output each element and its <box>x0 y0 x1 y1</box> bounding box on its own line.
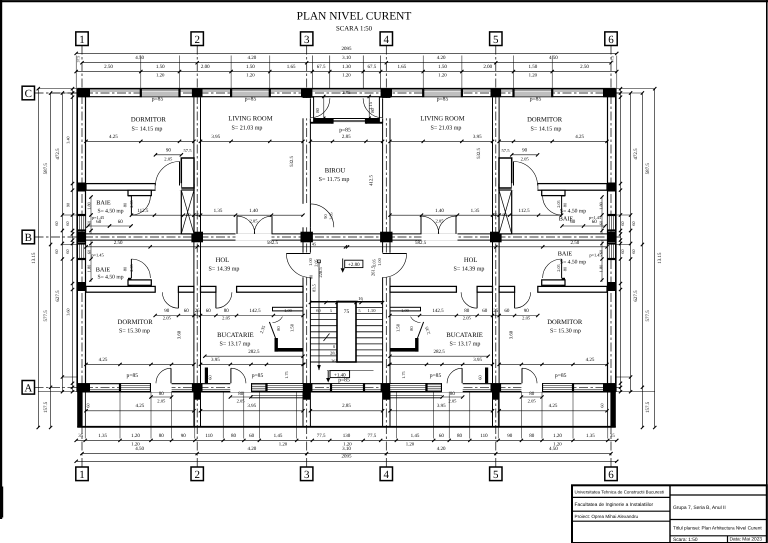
svg-text:265: 265 <box>331 358 338 363</box>
svg-text:3.95: 3.95 <box>211 134 220 140</box>
svg-text:1.50: 1.50 <box>396 323 401 332</box>
svg-text:80: 80 <box>122 202 127 207</box>
svg-text:60: 60 <box>208 375 213 380</box>
svg-text:1.75: 1.75 <box>401 371 406 378</box>
svg-text:2.05: 2.05 <box>129 264 134 271</box>
cut door living-left double in B wall <box>236 233 272 240</box>
window south bedroom-right 1.20 <box>542 384 573 391</box>
cut door bedroom-left in A1 wall <box>155 183 181 190</box>
svg-text:3.95: 3.95 <box>473 134 482 140</box>
svg-text:3.95: 3.95 <box>247 403 256 409</box>
svg-text:5: 5 <box>493 469 499 481</box>
pier grid5 x axisB <box>490 232 502 243</box>
svg-text:2.05: 2.05 <box>249 219 258 224</box>
south wall inner liner line <box>77 388 616 390</box>
svg-text:4.20: 4.20 <box>437 446 446 452</box>
svg-text:4.25: 4.25 <box>109 134 118 140</box>
bath-lower-left east wall <box>128 278 131 287</box>
extension lines top <box>75 56 77 89</box>
svg-text:S= 15.30 mp: S= 15.30 mp <box>119 328 150 334</box>
svg-text:6: 6 <box>608 469 614 481</box>
svg-text:60: 60 <box>439 433 445 439</box>
grid bubble 6 bottom <box>605 467 617 481</box>
svg-text:80: 80 <box>563 266 568 271</box>
svg-text:4.25: 4.25 <box>549 403 558 409</box>
svg-text:80: 80 <box>315 108 320 113</box>
svg-text:228.5: 228.5 <box>318 267 323 278</box>
svg-text:25: 25 <box>493 308 499 314</box>
terrace stub grid2 <box>193 392 195 427</box>
loggia recessed wall west part <box>310 119 332 124</box>
loggia parapet north <box>310 118 382 120</box>
pantry-right south wall <box>390 348 419 352</box>
svg-text:472.5: 472.5 <box>55 148 61 160</box>
svg-text:5: 5 <box>330 308 332 313</box>
svg-text:S= 14.15 mp: S= 14.15 mp <box>132 127 163 133</box>
cut door apt-right entry in grid4 wall <box>382 253 391 278</box>
svg-text:60: 60 <box>599 220 604 225</box>
svg-text:2095: 2095 <box>342 46 353 52</box>
kitchen-left return wall at grid2 <box>205 368 208 384</box>
dim col right 587.5/577.5/157.5 <box>641 93 643 428</box>
svg-text:2.85: 2.85 <box>342 403 351 409</box>
north exterior wall inner face <box>77 96 616 98</box>
svg-text:3.10: 3.10 <box>342 55 351 61</box>
svg-text:80: 80 <box>529 391 535 397</box>
svg-text:60: 60 <box>316 308 321 313</box>
svg-text:1.80: 1.80 <box>87 201 92 209</box>
svg-text:80: 80 <box>529 433 535 439</box>
svg-text:1.75: 1.75 <box>284 371 289 378</box>
terrace bottom edge full width <box>77 426 616 428</box>
terrace stub east wall <box>610 392 615 427</box>
cut door loggia in grid3 wall <box>302 98 311 118</box>
svg-text:3: 3 <box>304 469 310 481</box>
svg-text:1.50: 1.50 <box>529 64 538 70</box>
svg-text:4: 4 <box>384 469 390 481</box>
svg-text:1.45: 1.45 <box>411 433 420 439</box>
window west bath-upper 60 <box>78 215 85 231</box>
north wall pier at grid 2 <box>192 89 203 98</box>
bath-upper-right west wall <box>562 190 565 196</box>
dim row top detail <box>76 71 617 73</box>
window north living-left 1.50/1.20 <box>231 90 270 97</box>
page frame top edge <box>0 0 768 2</box>
dim row top overall 2095 <box>76 52 617 54</box>
svg-text:1: 1 <box>79 34 85 46</box>
loggia side wall right <box>379 97 382 122</box>
svg-text:3.40: 3.40 <box>66 136 71 143</box>
svg-text:p=85: p=85 <box>430 373 442 379</box>
svg-text:1.50: 1.50 <box>156 64 165 70</box>
svg-text:4.50: 4.50 <box>135 55 144 61</box>
svg-text:57.5: 57.5 <box>501 148 510 153</box>
pier grid3 x axisB <box>301 232 313 243</box>
svg-text:Data: Mai 2023: Data: Mai 2023 <box>730 537 763 543</box>
svg-text:90: 90 <box>524 308 530 314</box>
svg-text:577.5: 577.5 <box>43 310 49 322</box>
door kitchen-left 80 from hol <box>215 292 217 308</box>
svg-text:587.5: 587.5 <box>43 163 49 175</box>
svg-text:80: 80 <box>122 266 127 271</box>
svg-text:472.5: 472.5 <box>633 148 639 160</box>
dim line rooms top <box>86 140 194 142</box>
east exterior wall inner face <box>607 89 609 392</box>
SE corner pier <box>603 383 616 392</box>
bedroom-left wall under shaft <box>180 184 194 190</box>
terrace stub west wall <box>77 392 82 427</box>
svg-text:A: A <box>24 382 32 394</box>
svg-text:3.60: 3.60 <box>509 330 515 339</box>
svg-text:S= 13.17 mp: S= 13.17 mp <box>220 341 251 347</box>
svg-text:2.50: 2.50 <box>114 240 123 246</box>
north wall pier at grid 4 <box>381 89 392 98</box>
svg-text:p=85: p=85 <box>555 373 567 379</box>
pier grid2 x axisB <box>191 232 203 243</box>
window north bedroom-left 1.50/1.20 <box>141 90 180 97</box>
grid bubble 2 top <box>191 32 203 46</box>
svg-text:HOL: HOL <box>464 257 478 264</box>
wall axis B spine <box>86 233 607 235</box>
svg-text:60: 60 <box>118 219 124 225</box>
svg-text:2.05: 2.05 <box>329 212 334 219</box>
svg-text:1.65: 1.65 <box>287 64 296 70</box>
dim chain hol lower left (2.50 582.5) <box>86 246 348 248</box>
dim lobby 60/60 right <box>562 225 605 227</box>
dim chain hol upper (112.5 / 1.35 / 1.40) <box>131 214 303 216</box>
svg-text:1.00: 1.00 <box>284 308 292 313</box>
east wall pier at bedroom wall <box>607 183 616 192</box>
wall grid 2 interior <box>193 97 195 383</box>
window north bedroom-right 1.50/1.20 <box>514 90 553 97</box>
svg-text:60: 60 <box>65 221 70 225</box>
grid bubble 1 top <box>76 32 88 46</box>
svg-text:p=85: p=85 <box>245 96 257 102</box>
dim chain bedroom2/kitchen doors right <box>390 315 538 317</box>
svg-text:2.05: 2.05 <box>222 315 231 320</box>
stair bottom landing edge <box>310 361 382 363</box>
grid bubble 3 bottom <box>301 467 313 481</box>
svg-text:532.5: 532.5 <box>476 148 482 159</box>
west wall pier at bedroom wall <box>77 183 86 192</box>
kitchen-right return wall at grid5 <box>485 368 488 384</box>
window south kitchen-left small 60 <box>251 384 267 391</box>
dim col left 587.5/577.5/157.5 <box>50 93 52 428</box>
stair flight direction line <box>318 262 320 371</box>
door loggia from living-right 80 <box>382 98 384 118</box>
dim col left horizontal connectors <box>38 88 77 90</box>
svg-text:90: 90 <box>166 148 172 154</box>
svg-text:p=85: p=85 <box>339 128 351 134</box>
svg-text:60: 60 <box>599 249 604 254</box>
door loggia from living-left 80 <box>309 98 311 118</box>
grid axis 2 vertical centerline <box>196 46 198 468</box>
svg-text:1.35: 1.35 <box>471 208 480 214</box>
svg-text:2.85: 2.85 <box>342 90 351 96</box>
wall grid 5 interior <box>492 97 494 383</box>
svg-text:1.40: 1.40 <box>435 208 444 214</box>
cut door south kitchen-right <box>442 383 463 393</box>
svg-text:1.35: 1.35 <box>214 208 223 214</box>
door bath-lower-right 80 <box>561 259 563 278</box>
svg-text:4.50: 4.50 <box>549 55 558 61</box>
dim chain hol lower right <box>346 246 608 248</box>
door pantry-right diagonal 80 <box>418 322 424 338</box>
cut door living-right double in B wall <box>422 233 458 240</box>
svg-text:S= 14.39 mp: S= 14.39 mp <box>454 266 485 272</box>
svg-text:Proiect: Oprea Mihai Alexandr: Proiect: Oprea Mihai Alexandru <box>575 514 639 519</box>
svg-text:2: 2 <box>194 469 200 481</box>
wall grid 4 interior <box>382 97 384 383</box>
window south bedroom-left 1.20 <box>120 384 151 391</box>
dim col right detail <box>620 89 622 392</box>
svg-text:582.5: 582.5 <box>267 240 279 246</box>
svg-text:35: 35 <box>78 433 84 439</box>
svg-text:SCARA 1:50: SCARA 1:50 <box>336 26 373 33</box>
svg-text:C: C <box>25 88 32 100</box>
svg-text:142.5: 142.5 <box>432 308 444 314</box>
svg-text:90: 90 <box>66 203 71 207</box>
svg-text:p=85: p=85 <box>252 373 264 379</box>
svg-text:157.5: 157.5 <box>645 401 651 413</box>
svg-text:BAIE: BAIE <box>96 267 111 274</box>
svg-text:2.05: 2.05 <box>522 315 531 320</box>
svg-text:2.05: 2.05 <box>371 259 376 266</box>
west wall pier at lower bath wall <box>77 282 86 291</box>
grid axis C horizontal centerline <box>35 92 623 94</box>
door bath-upper-right 80 <box>561 196 563 215</box>
svg-text:13.15: 13.15 <box>31 252 37 264</box>
dim loggia door line left <box>323 96 325 118</box>
svg-text:2.05: 2.05 <box>163 315 172 320</box>
svg-text:Grupa 7, Seria B, Anul II: Grupa 7, Seria B, Anul II <box>673 505 726 511</box>
svg-text:4.25: 4.25 <box>586 357 595 363</box>
dim line bath west inner upper <box>90 197 92 234</box>
svg-text:90: 90 <box>323 214 328 219</box>
svg-text:60: 60 <box>600 403 605 407</box>
svg-text:1.30: 1.30 <box>342 64 351 70</box>
door apt-right entry 1.00 in grid4 <box>383 253 407 255</box>
cut door south bedroom-left <box>151 383 172 393</box>
svg-text:p=85: p=85 <box>127 373 139 379</box>
dim loggia door line right <box>368 96 370 118</box>
svg-text:1.20: 1.20 <box>131 433 140 439</box>
svg-text:p=85: p=85 <box>152 97 164 103</box>
east exterior wall outer face <box>615 89 617 392</box>
svg-text:S= 4.50 mp: S= 4.50 mp <box>560 208 586 214</box>
south wall pier at grid 3 <box>301 383 312 392</box>
svg-text:37.5: 37.5 <box>611 56 615 63</box>
svg-text:p=85: p=85 <box>530 97 542 103</box>
svg-text:35: 35 <box>610 433 616 439</box>
svg-text:67.5: 67.5 <box>317 64 326 70</box>
dim col left 472.5/627.5 <box>61 93 63 392</box>
svg-text:3.60: 3.60 <box>66 308 71 315</box>
stair bottom landing inner line <box>327 370 374 372</box>
svg-text:S= 11.75 mp: S= 11.75 mp <box>319 177 350 183</box>
dim bedroom1 door left (90/2.05) <box>155 154 181 156</box>
svg-text:60: 60 <box>478 375 483 380</box>
stair direction line upper dot <box>318 260 321 263</box>
grid axis 5 vertical centerline <box>495 46 497 468</box>
svg-text:1.35: 1.35 <box>586 433 595 439</box>
svg-text:1: 1 <box>79 469 85 481</box>
dim col left overall 13.15 <box>37 89 39 428</box>
north wall pier at grid 3 <box>301 89 312 98</box>
door pantry-left diagonal 80 <box>269 322 275 338</box>
svg-text:Facultatea de Inginerie a Inst: Facultatea de Inginerie a Instalatiilor <box>575 502 654 508</box>
pantry-right north wall <box>390 307 421 311</box>
svg-text:S= 21.03 mp: S= 21.03 mp <box>431 126 462 132</box>
svg-text:112.5: 112.5 <box>137 208 149 214</box>
kitchen-right north wall seg2 <box>477 286 492 292</box>
svg-text:3.95: 3.95 <box>437 403 446 409</box>
svg-text:BIROU: BIROU <box>325 168 346 175</box>
svg-text:80: 80 <box>159 391 165 397</box>
bath/bed lower-left wall (A2) <box>86 286 155 292</box>
bedroom-left lower wall stub-E (57.5 block) <box>181 158 194 188</box>
svg-text:Scara: 1:50: Scara: 1:50 <box>673 537 698 543</box>
svg-text:4.25: 4.25 <box>136 403 145 409</box>
door south kitchen-right 80 <box>461 368 463 383</box>
svg-text:90: 90 <box>507 433 513 439</box>
page frame right edge <box>766 0 768 543</box>
svg-text:S= 13.17 mp: S= 13.17 mp <box>450 341 481 347</box>
svg-text:1.80: 1.80 <box>599 201 604 209</box>
svg-text:1.00: 1.00 <box>401 308 409 313</box>
dim kitchen 282.5 line right <box>390 355 488 357</box>
svg-text:BAIE: BAIE <box>96 200 111 207</box>
dim col right overall 13.15 <box>654 89 656 428</box>
level marker +1.40 box <box>330 371 350 378</box>
svg-text:1.00: 1.00 <box>308 257 313 265</box>
svg-text:8: 8 <box>333 344 335 349</box>
grid axis A horizontal centerline <box>35 386 623 388</box>
svg-text:1.10: 1.10 <box>367 308 376 313</box>
svg-text:80: 80 <box>464 308 470 314</box>
svg-text:60: 60 <box>504 308 510 314</box>
door living-right double 1.40 in B wall <box>455 216 457 234</box>
svg-text:112.5: 112.5 <box>519 208 531 214</box>
window west bath-lower 60 <box>78 244 85 260</box>
svg-text:1.20: 1.20 <box>438 72 447 78</box>
balcony right inner sill line <box>389 397 442 399</box>
svg-text:2.05: 2.05 <box>129 200 134 207</box>
stair landing edge top <box>310 301 382 303</box>
svg-text:PLAN NIVEL CURENT: PLAN NIVEL CURENT <box>297 11 412 23</box>
svg-text:1.20: 1.20 <box>246 72 255 78</box>
svg-text:80: 80 <box>450 391 456 397</box>
svg-text:77.5: 77.5 <box>317 433 326 439</box>
svg-text:6: 6 <box>608 34 614 46</box>
window south kitchen-right small 60 <box>427 384 443 391</box>
terrace stub grid4 <box>382 392 384 427</box>
balcony left inner sill line <box>251 397 304 399</box>
svg-text:80: 80 <box>276 326 281 331</box>
svg-text:1.20: 1.20 <box>529 72 538 78</box>
dim col right horizontal connectors <box>616 88 655 90</box>
svg-text:2095: 2095 <box>342 454 353 460</box>
window loggia biroul 1.30 <box>333 119 367 123</box>
svg-text:1.80: 1.80 <box>599 264 604 272</box>
dim lobby 60/60 left <box>88 225 131 227</box>
svg-text:587.5: 587.5 <box>645 163 651 175</box>
svg-text:LIVING ROOM: LIVING ROOM <box>228 115 272 122</box>
stair flight break slash <box>324 334 330 342</box>
cut door biroul in grid3 wall <box>302 204 311 228</box>
vent shaft right (X-box) <box>499 190 512 234</box>
svg-text:28.5: 28.5 <box>330 351 338 356</box>
dim south doors left <box>151 396 172 398</box>
page edge mark bottom-left <box>0 487 3 518</box>
svg-text:60: 60 <box>631 249 636 253</box>
grid axis 1 vertical centerline <box>81 46 83 468</box>
svg-text:1.65: 1.65 <box>398 64 407 70</box>
svg-text:4.20: 4.20 <box>437 55 446 61</box>
dim line bath west inner lower <box>90 240 92 282</box>
svg-text:45: 45 <box>312 242 316 247</box>
svg-text:282.5: 282.5 <box>248 349 260 355</box>
svg-text:S= 4.50 mp: S= 4.50 mp <box>98 274 124 280</box>
svg-text:2.05: 2.05 <box>448 399 457 404</box>
svg-text:110: 110 <box>480 433 488 439</box>
svg-text:p=1.45: p=1.45 <box>91 253 104 258</box>
svg-text:1.45: 1.45 <box>274 433 283 439</box>
svg-text:3.10: 3.10 <box>342 446 351 452</box>
svg-text:DORMITOR: DORMITOR <box>527 117 563 124</box>
svg-text:90: 90 <box>503 212 507 217</box>
kitchen-right north wall seg3 <box>390 286 456 292</box>
svg-text:90: 90 <box>181 433 187 439</box>
kitchen-right north wall seg1 <box>499 286 514 292</box>
north wall pier at grid 5 <box>491 89 502 98</box>
west exterior wall inner face <box>85 89 87 392</box>
svg-text:Universitatea Tehnica de Const: Universitatea Tehnica de Constructii Buc… <box>575 489 665 494</box>
svg-text:90: 90 <box>522 148 528 154</box>
south wall pier at grid 4 <box>381 383 392 392</box>
kitchen-left north wall seg2 <box>201 286 216 292</box>
door kitchen-right 80 from hol <box>476 292 478 308</box>
svg-text:1.50: 1.50 <box>290 323 295 332</box>
door bedroom2-right 90 from hol <box>514 292 516 308</box>
terrace stub grid3 <box>302 392 304 427</box>
svg-text:5: 5 <box>359 308 361 313</box>
grid axis 3 vertical centerline <box>306 46 308 468</box>
window north living-right 1.50/1.20 <box>423 90 462 97</box>
dim bedroom1 door right <box>512 154 538 156</box>
stair top dim line <box>310 302 382 304</box>
door bath-upper-left 80 <box>130 196 132 215</box>
page frame left edge <box>0 0 2 519</box>
svg-text:60: 60 <box>65 249 70 253</box>
grid bubble B <box>22 230 34 244</box>
svg-text:4.20: 4.20 <box>248 446 257 452</box>
bath-lower-left lobby stub <box>128 280 151 285</box>
svg-text:S= 4.50 mp: S= 4.50 mp <box>98 208 124 214</box>
window south central 1.30 <box>331 384 364 391</box>
svg-text:1.20: 1.20 <box>406 441 415 447</box>
svg-text:25: 25 <box>494 212 498 217</box>
door apt-left entry 1.00 in grid3 <box>286 253 310 255</box>
svg-text:3.60: 3.60 <box>177 330 183 339</box>
svg-text:LIVING ROOM: LIVING ROOM <box>420 115 464 122</box>
svg-text:BUCATARIE: BUCATARIE <box>446 332 482 339</box>
svg-text:60: 60 <box>631 221 636 225</box>
svg-text:57.5: 57.5 <box>183 148 192 153</box>
bedroom-left lower wall (A1) <box>86 184 155 191</box>
svg-text:60: 60 <box>184 308 190 314</box>
svg-text:1.00: 1.00 <box>377 257 382 265</box>
